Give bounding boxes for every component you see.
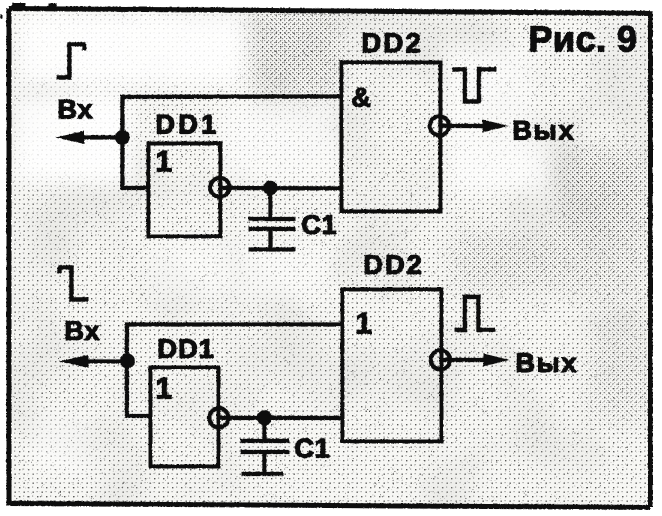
- wire DD1 output to DD2 input (bottom): [218, 415, 342, 419]
- logic gate DD1 (top inverter): [148, 143, 220, 236]
- svg-text:DD2: DD2: [363, 250, 424, 280]
- svg-text:DD2: DD2: [361, 27, 423, 58]
- svg-text:Вых: Вых: [512, 115, 575, 145]
- inverter output circle DD1 (bottom): [209, 408, 228, 427]
- output arrow (top): [440, 119, 509, 132]
- wire junction down to DD1 input (bottom circuit): [125, 361, 151, 416]
- capacitor C1 (top): [248, 188, 295, 250]
- svg-text:&: &: [351, 82, 371, 112]
- inverter output circle DD2 (top): [429, 116, 448, 135]
- node B1 (capacitor junction): [263, 180, 278, 195]
- input waveform W3 (falling edge): [58, 267, 88, 299]
- inverter output circle DD1 (top): [210, 177, 229, 196]
- svg-text:DD1: DD1: [157, 334, 215, 364]
- output arrow (bottom): [441, 353, 510, 366]
- wire DD1 output to DD2 input: [219, 185, 341, 190]
- svg-text:DD1: DD1: [155, 109, 219, 139]
- svg-text:Вх: Вх: [57, 94, 93, 124]
- svg-text:Рис. 9: Рис. 9: [528, 18, 637, 59]
- capacitor C1 (bottom): [240, 418, 289, 474]
- svg-text:C1: C1: [301, 210, 337, 240]
- svg-text:1: 1: [155, 145, 172, 178]
- svg-text:Вх: Вх: [64, 316, 100, 346]
- input arrow (top): [55, 131, 122, 144]
- wire junction to top rail (bottom circuit): [124, 324, 128, 361]
- svg-text:C1: C1: [294, 433, 330, 463]
- svg-text:Вых: Вых: [515, 348, 578, 378]
- logic gate DD1 (bottom inverter): [150, 367, 218, 466]
- input arrow (bottom): [59, 355, 128, 368]
- logic gate DD2 (bottom, OR): [342, 289, 441, 441]
- wire top rail to DD2 pin: [120, 94, 341, 99]
- wire junction down to DD1 input: [120, 137, 148, 188]
- logic gate DD2 (top, AND): [341, 62, 440, 211]
- node B2 (capacitor junction): [256, 410, 271, 425]
- svg-text:1: 1: [155, 372, 172, 405]
- wire rail to DD2 pin (bottom circuit): [125, 322, 343, 326]
- border scan artifact marks: [0, 5, 56, 17]
- output waveform W4 (positive pulse): [454, 297, 495, 330]
- inverter output circle DD2 (bottom): [430, 350, 449, 369]
- output waveform W2 (negative pulse): [452, 69, 496, 101]
- wire junction to top rail: [120, 97, 124, 138]
- node A1 (input junction): [115, 130, 130, 145]
- node A2 (input junction): [120, 353, 135, 368]
- svg-text:1: 1: [355, 307, 372, 340]
- input waveform W1 (rising edge): [56, 44, 85, 77]
